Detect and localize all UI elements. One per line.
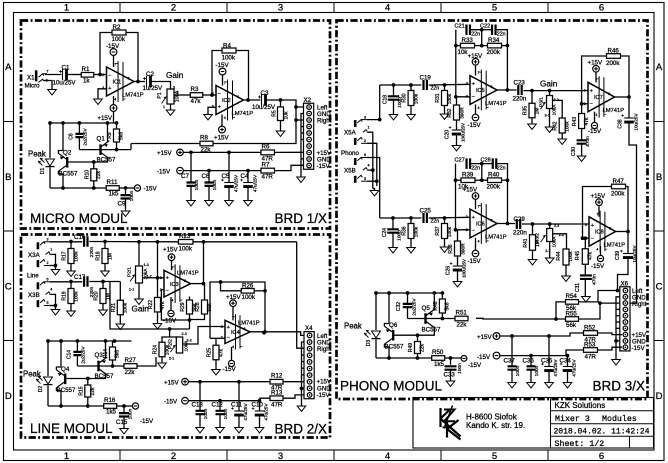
svg-text:47R: 47R <box>262 174 274 181</box>
wire output vertical to X4 Right <box>297 242 304 348</box>
svg-text:100k: 100k <box>179 245 193 252</box>
node IC1 output <box>136 80 140 84</box>
wire X1 sleeve to ground <box>44 81 52 90</box>
potentiometer P2/2 10kA <box>176 337 182 353</box>
svg-text:BRD 1/X: BRD 1/X <box>274 211 327 226</box>
svg-text:X3A: X3A <box>28 252 41 259</box>
ground IC2 pin3 <box>204 115 213 120</box>
resistor R48 <box>441 293 443 299</box>
svg-text:100n: 100n <box>223 408 229 419</box>
svg-text:1k5: 1k5 <box>109 191 120 198</box>
capacitor C11 <box>238 382 240 411</box>
svg-text:2u2/25V: 2u2/25V <box>412 298 417 316</box>
svg-text:-15V: -15V <box>588 128 602 135</box>
wire R6 to X2 +15V pin <box>275 151 304 153</box>
resistor R24 <box>159 342 165 357</box>
connector X4 output header <box>304 332 314 399</box>
svg-text:2: 2 <box>221 335 223 339</box>
svg-text:LM741P: LM741P <box>177 270 199 276</box>
svg-text:Q1: Q1 <box>97 136 106 143</box>
bottom peak wire line <box>48 405 104 407</box>
svg-text:4: 4 <box>385 451 390 462</box>
svg-text:C19: C19 <box>420 75 432 82</box>
grid column ticks bottom band <box>119 450 121 461</box>
svg-text:47u/25V: 47u/25V <box>553 359 558 377</box>
MICRO MODUL board outline BRD 1/X <box>21 21 330 229</box>
peak rail wire phono <box>376 292 442 294</box>
svg-text:R43: R43 <box>572 117 578 126</box>
svg-text:-15V: -15V <box>317 392 331 399</box>
op-amp IC7 LM741P <box>588 82 615 111</box>
wire R11 to -15V flag <box>119 187 134 189</box>
svg-text:C: C <box>5 282 12 293</box>
svg-text:4: 4 <box>114 98 116 102</box>
svg-text:R54: R54 <box>566 293 578 300</box>
node R10 top <box>92 160 96 164</box>
node IC2 in- junction <box>210 93 214 97</box>
transistor Q3 base wire with R27 <box>77 365 124 367</box>
svg-text:+15V: +15V <box>214 135 229 142</box>
svg-text:470n: 470n <box>591 274 597 285</box>
svg-text:1k: 1k <box>83 78 90 85</box>
svg-text:IC8: IC8 <box>595 230 604 236</box>
connector X3A line jack A <box>37 242 40 249</box>
svg-text:3: 3 <box>584 89 586 93</box>
svg-text:3: 3 <box>160 276 162 280</box>
svg-text:-15V: -15V <box>468 362 482 369</box>
op-amp IC3 LM741P <box>164 270 191 297</box>
svg-text:R46: R46 <box>608 48 620 55</box>
svg-text:200k: 200k <box>487 184 501 191</box>
svg-text:-15V: -15V <box>144 186 158 193</box>
wire IC1 output <box>134 81 145 83</box>
svg-text:2: 2 <box>584 102 586 106</box>
wire X1 tip to C1 <box>45 74 62 76</box>
svg-text:100n: 100n <box>534 365 540 376</box>
capacitor C19 <box>424 80 427 90</box>
svg-text:2: 2 <box>212 92 214 96</box>
wire LED branch <box>49 123 51 158</box>
power flag +15V below IC1 <box>113 96 115 105</box>
svg-text:A: A <box>656 62 663 73</box>
svg-text:R35: R35 <box>523 106 529 115</box>
wire Q6 emitter to rail <box>384 293 389 327</box>
svg-text:BRD 2/X: BRD 2/X <box>274 422 327 437</box>
svg-text:+: + <box>591 223 594 229</box>
capacitor C22 <box>492 24 496 35</box>
svg-text:1k5: 1k5 <box>106 409 117 416</box>
rail C25 to IC6 plus <box>429 216 470 219</box>
svg-text:R7: R7 <box>262 162 270 169</box>
-15V rail wire line <box>188 398 270 401</box>
wire R16 to -15V flag <box>117 405 132 407</box>
svg-text:6: 6 <box>128 77 130 81</box>
svg-text:7: 7 <box>595 78 597 82</box>
node IC2 output <box>246 98 250 102</box>
bottom peak wire <box>50 187 106 189</box>
svg-text:C20: C20 <box>444 130 450 139</box>
connector X6 output header <box>620 287 630 351</box>
svg-text:C12: C12 <box>212 402 224 409</box>
wire C1 to R1 <box>68 74 82 76</box>
wire C/R mid junction <box>481 30 483 46</box>
svg-text:C30: C30 <box>571 147 577 156</box>
svg-text:R12: R12 <box>271 373 283 380</box>
svg-text:47k: 47k <box>588 251 594 260</box>
svg-text:5: 5 <box>47 301 49 305</box>
wire P1 bottom to ground <box>170 104 172 110</box>
svg-text:390R: 390R <box>460 107 466 119</box>
capacitor C28 <box>493 158 497 169</box>
wire IC2 output to C3 <box>244 99 261 101</box>
svg-text:10kA: 10kA <box>552 104 558 116</box>
svg-text:2: 2 <box>171 451 176 462</box>
wire R40 right <box>502 179 508 181</box>
wire channel B to mixer bus <box>110 282 190 329</box>
svg-text:+: + <box>108 86 111 92</box>
svg-text:5: 5 <box>492 3 497 14</box>
wire Q1 emitter to rail <box>107 123 109 142</box>
wire X5A tip up to channel 1 rail <box>367 85 380 120</box>
ground IC1 pin3 <box>94 99 103 104</box>
wire Q4 emitter to rail <box>56 341 61 370</box>
svg-text:2-2: 2-2 <box>187 339 192 343</box>
power flag -15V below IC3 <box>170 297 172 310</box>
resistor R35 <box>531 90 533 103</box>
resistor R14 <box>112 341 114 347</box>
svg-text:C2: C2 <box>146 71 154 78</box>
svg-text:LM741P: LM741P <box>485 101 507 107</box>
svg-text:IC6: IC6 <box>476 222 485 228</box>
svg-text:C26: C26 <box>445 266 451 275</box>
ground C15 <box>120 429 129 434</box>
+15V rail wire line <box>188 381 270 383</box>
capacitor C31 <box>584 264 586 275</box>
wire R55 right to pin3 <box>579 303 601 319</box>
wire R8 tap <box>130 144 132 150</box>
svg-text:+15V: +15V <box>477 334 492 341</box>
resistor R47 feedback IC8 <box>612 184 626 189</box>
svg-text:R15: R15 <box>78 386 84 395</box>
svg-text:10kA: 10kA <box>551 236 557 248</box>
svg-text:C14: C14 <box>67 350 73 359</box>
svg-text:2u2/25V: 2u2/25V <box>83 128 88 146</box>
svg-text:R19: R19 <box>62 291 68 300</box>
op-amp IC4 LM741P <box>225 320 250 343</box>
svg-text:5: 5 <box>364 177 366 181</box>
wire P3/2 wiper to R44 <box>553 234 567 250</box>
power flag -15V peak line <box>132 403 138 409</box>
wire IC3 inverting input to mixing node <box>161 290 189 320</box>
+15V rail wire <box>183 151 261 153</box>
svg-text:47k: 47k <box>218 348 224 357</box>
resistor R17 <box>70 242 72 249</box>
wire C29 to IC8 plus through pot top <box>522 223 589 225</box>
svg-text:200k: 200k <box>611 190 625 197</box>
svg-text:Peak: Peak <box>23 370 41 379</box>
wire Left line into X6 pin1 <box>618 290 623 292</box>
svg-text:220n: 220n <box>89 246 95 257</box>
resistor R9 <box>116 123 118 129</box>
wire C2 to P1 <box>152 82 171 90</box>
resistor R15 <box>87 379 89 386</box>
capacitor C5 <box>228 152 230 182</box>
capacitor C12 <box>219 401 221 411</box>
X4 ground chain <box>302 342 305 406</box>
ground X2 <box>297 177 306 182</box>
svg-text:P3/2: P3/2 <box>535 233 541 243</box>
svg-text:LM741P: LM741P <box>604 243 626 249</box>
svg-text:C38: C38 <box>618 119 624 128</box>
wire R26 right <box>254 290 265 292</box>
resistor R22 <box>157 278 159 298</box>
svg-text:D: D <box>5 391 12 402</box>
transistor Q4 BC557 <box>64 374 66 385</box>
svg-text:4: 4 <box>385 3 390 14</box>
svg-text:3: 3 <box>173 86 175 90</box>
channel 2 input rail <box>380 217 422 219</box>
svg-text:BC557: BC557 <box>422 327 441 334</box>
svg-text:P3/1: P3/1 <box>539 97 545 107</box>
wire R47 left loop <box>583 187 612 239</box>
svg-text:56k: 56k <box>566 322 577 329</box>
svg-text:R13: R13 <box>271 390 283 397</box>
svg-text:2: 2 <box>364 139 366 143</box>
resistor R2 <box>112 30 126 35</box>
svg-text:6: 6 <box>491 219 493 223</box>
capacitor C9 <box>125 188 127 195</box>
capacitor C24 <box>392 218 394 229</box>
capacitor C14 <box>76 341 78 352</box>
resistor R10 <box>93 162 95 169</box>
svg-text:4: 4 <box>50 288 52 292</box>
wire R12 to X4 +15V pin <box>283 381 304 383</box>
resistor R18 <box>104 242 106 249</box>
wire P3/1 wiper to R42 <box>553 100 563 118</box>
svg-text:100n: 100n <box>515 365 521 376</box>
svg-text:C5: C5 <box>222 173 230 180</box>
title block divider <box>551 398 654 449</box>
svg-text:6: 6 <box>47 278 49 282</box>
svg-text:100k: 100k <box>74 291 80 302</box>
connector X1 microphone jack <box>35 70 38 81</box>
potentiometer P3/2 10kA <box>549 224 551 229</box>
svg-text:R53: R53 <box>584 341 596 348</box>
svg-text:C1: C1 <box>62 64 70 71</box>
svg-text:100u/25V: 100u/25V <box>461 259 466 278</box>
capacitor C15 <box>123 406 125 413</box>
svg-text:LM741P: LM741P <box>603 108 625 114</box>
rail after C16 through R23 node <box>89 241 178 243</box>
wire P3/1 bottom ground <box>549 109 551 128</box>
svg-text:1: 1 <box>64 451 69 462</box>
svg-text:4: 4 <box>232 345 234 349</box>
svg-text:+: + <box>227 325 230 331</box>
grid row ticks right band <box>654 121 664 123</box>
svg-text:C37: C37 <box>504 358 516 365</box>
wire R8 to peak detector <box>131 143 200 145</box>
wire output to Right pin <box>296 107 304 120</box>
capacitor C17 <box>84 276 87 287</box>
resistor R49 <box>417 335 419 341</box>
wire R53 to X6 -15V pin <box>598 347 623 350</box>
svg-text:100u/25V: 100u/25V <box>460 123 465 142</box>
capacitor C32 <box>407 293 409 304</box>
power flag -15V below IC7 <box>594 112 596 123</box>
svg-text:R26: R26 <box>242 282 254 289</box>
svg-text:R25: R25 <box>207 348 213 357</box>
channel 1 input rail <box>380 84 422 86</box>
connector X5A phono jack A <box>354 120 357 127</box>
capacitor C13 <box>199 382 201 411</box>
svg-text:C21: C21 <box>455 24 465 30</box>
power flag -15V below IC5 <box>475 104 477 114</box>
resistor R29 <box>189 320 191 329</box>
svg-text:6: 6 <box>599 3 604 14</box>
resistor R44 <box>563 249 569 265</box>
channel A input rail <box>50 241 83 243</box>
svg-text:Kando K. str. 19.: Kando K. str. 19. <box>466 421 525 430</box>
svg-text:D: D <box>656 391 663 402</box>
potentiometer P1 10kA <box>167 89 174 104</box>
svg-text:C8: C8 <box>69 133 75 140</box>
svg-text:6: 6 <box>599 451 604 462</box>
resistor R21 <box>119 282 121 301</box>
svg-text:R16: R16 <box>104 397 116 404</box>
capacitor C30 <box>581 129 583 141</box>
wire R54 left down <box>556 302 566 319</box>
svg-text:-15V: -15V <box>163 318 177 325</box>
svg-text:C39: C39 <box>615 251 621 260</box>
power flag -15V below IC4 <box>231 347 233 360</box>
wire X5B sleeve <box>367 180 377 182</box>
svg-text:+15V: +15V <box>97 115 112 122</box>
wire IC3 feedback node down <box>203 242 205 284</box>
capacitor C39 output Right <box>627 232 629 254</box>
svg-text:4: 4 <box>368 164 370 168</box>
resistor R27 <box>124 364 137 369</box>
svg-text:+: + <box>590 88 593 94</box>
svg-text:+15V: +15V <box>157 150 172 157</box>
capacitor C7 <box>190 152 192 182</box>
svg-text:47k: 47k <box>160 301 166 310</box>
wire Right pin down to R8 line <box>213 120 296 144</box>
svg-text:D3: D3 <box>366 340 372 347</box>
resistor R11 <box>106 186 119 191</box>
svg-text:IC7: IC7 <box>594 95 603 101</box>
svg-text:R52: R52 <box>584 324 596 331</box>
resistor R40 <box>488 178 502 183</box>
wire C/R mid junction 2 <box>481 164 483 181</box>
svg-text:100k: 100k <box>222 55 236 62</box>
svg-text:+: + <box>472 82 475 88</box>
svg-text:7: 7 <box>478 71 480 75</box>
node Right tap <box>294 118 298 122</box>
svg-text:2: 2 <box>171 3 176 14</box>
svg-text:47k: 47k <box>584 117 590 126</box>
LED D1 <box>46 159 55 166</box>
svg-text:X2: X2 <box>304 97 312 104</box>
wire R26 node to output <box>264 291 266 332</box>
wire R47 right loop <box>626 187 629 232</box>
svg-text:R42: R42 <box>553 121 559 130</box>
svg-text:R14: R14 <box>103 349 109 358</box>
wire R3 to IC2 <box>203 94 216 96</box>
svg-text:R20: R20 <box>94 291 100 300</box>
wire IC8 output to C39 <box>616 231 629 233</box>
svg-text:LM741P: LM741P <box>485 234 507 240</box>
wire LED branch phono <box>375 293 377 330</box>
wire Right line into X6 pin3 <box>600 302 622 304</box>
resistor R26 <box>221 282 242 291</box>
capacitor C27 <box>467 158 471 169</box>
svg-text:C29: C29 <box>514 216 526 223</box>
svg-text:R22: R22 <box>148 300 154 309</box>
svg-text:R4: R4 <box>223 43 231 50</box>
wire R5 to ground <box>280 121 282 132</box>
svg-text:100n: 100n <box>127 408 133 419</box>
title block outer box <box>413 398 654 449</box>
wire Q2 collector to bottom wire <box>58 171 63 188</box>
resistor R45 <box>584 238 586 249</box>
capacitor C37 <box>511 336 513 366</box>
wire X5A sleeve <box>367 143 377 186</box>
svg-text:-15V: -15V <box>140 418 154 425</box>
resistor R53 <box>584 348 598 353</box>
capacitor C23 <box>518 85 521 95</box>
svg-text:X4: X4 <box>305 325 313 332</box>
svg-text:7: 7 <box>232 316 234 320</box>
svg-text:2-1: 2-1 <box>169 357 174 361</box>
svg-text:7: 7 <box>596 212 598 216</box>
resistor R42 <box>559 118 565 133</box>
svg-text:R31: R31 <box>435 93 441 102</box>
svg-text:R9: R9 <box>107 132 113 139</box>
wire RIAA right vertical to output <box>496 30 508 90</box>
svg-text:100n: 100n <box>457 363 463 374</box>
wire feedback up to R2 <box>100 33 112 75</box>
svg-text:Q2: Q2 <box>63 150 72 157</box>
transistor Q5 BC557 <box>424 313 426 324</box>
wire X5A ring chain <box>368 132 373 188</box>
svg-text:R44: R44 <box>556 251 562 260</box>
svg-text:-15V: -15V <box>468 122 482 129</box>
svg-text:BRD 3/X: BRD 3/X <box>592 379 645 394</box>
svg-text:22k: 22k <box>90 387 96 396</box>
svg-text:C32: C32 <box>396 302 402 311</box>
svg-text:Right: Right <box>632 301 647 308</box>
svg-text:Right: Right <box>317 118 332 125</box>
wire X3B ring and sleeve ground <box>51 294 56 309</box>
svg-text:22n: 22n <box>431 86 440 92</box>
wire R46 right loop <box>621 56 630 97</box>
power flag -15V below IC6 <box>475 238 477 250</box>
svg-text:3: 3 <box>278 451 283 462</box>
svg-text:R18: R18 <box>96 251 102 260</box>
svg-text:6: 6 <box>609 227 611 231</box>
+15V rail wire phono <box>500 333 584 336</box>
node R5 tap <box>279 98 283 102</box>
transistor Q3 BC557 <box>97 361 99 372</box>
svg-text:100k: 100k <box>112 36 126 43</box>
svg-text:R6: R6 <box>262 144 270 151</box>
wire IC5 output <box>497 89 517 91</box>
power flag -15V peak phono <box>461 356 467 362</box>
wire to jack ground <box>373 189 375 191</box>
svg-text:R28: R28 <box>195 302 201 311</box>
LED D2 <box>44 377 53 384</box>
wire R54 right to pin1 <box>579 291 618 302</box>
